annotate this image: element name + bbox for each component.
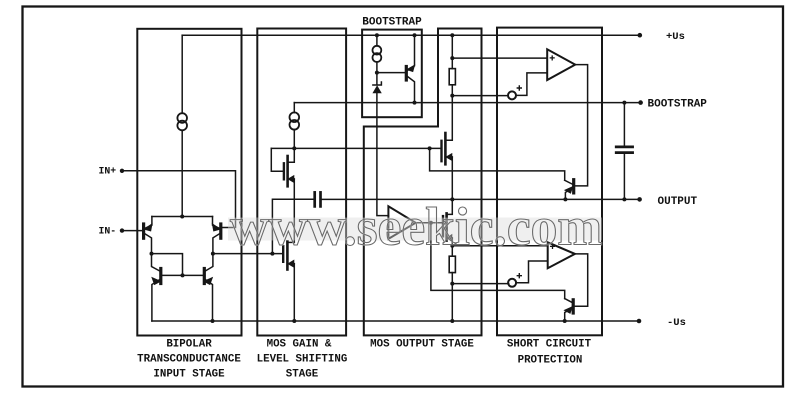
mosfet M1 (diode connected) <box>271 148 294 186</box>
node mirror base junction <box>181 273 185 277</box>
node M2 gate junction <box>270 252 274 256</box>
svg-text:INPUT STAGE: INPUT STAGE <box>153 368 225 380</box>
svg-text:SHORT CIRCUIT: SHORT CIRCUIT <box>507 339 592 351</box>
plus mark at U3 offset <box>517 274 521 278</box>
svg-text:BIPOLAR: BIPOLAR <box>166 339 212 351</box>
watermark www.seekic.com <box>228 218 602 241</box>
capacitor C1 <box>313 192 316 206</box>
wire -Us rail <box>152 320 639 322</box>
svg-text:IN+: IN+ <box>99 166 117 177</box>
svg-text:IN-: IN- <box>99 226 117 237</box>
node A1 output junction <box>429 221 433 225</box>
terminal IN- <box>120 228 124 232</box>
comparator U3 <box>548 242 575 268</box>
node tail junction <box>180 215 184 219</box>
wire I2 to M1 drain node <box>293 129 295 148</box>
svg-text:-Us: -Us <box>667 317 686 329</box>
wire R2 bottom sense to offset marker <box>452 283 508 285</box>
plus mark U2 input <box>550 56 554 60</box>
svg-text:TRANSCONDUCTANCE: TRANSCONDUCTANCE <box>137 353 241 365</box>
node R2 on -Us rail <box>450 319 454 323</box>
wire U2 output to Q6 base <box>575 65 588 186</box>
wire M1 source to M2 drain <box>293 179 295 242</box>
stage box SHORT CIRCUIT PROTECTION <box>497 28 602 336</box>
wire D1 down to amp A1 input <box>377 93 389 216</box>
offset marker circle U3 <box>508 279 516 287</box>
wire compensation tap <box>272 199 313 253</box>
transistor Q3 (mirror left, NPN) <box>152 254 161 321</box>
svg-text:BOOTSTRAP: BOOTSTRAP <box>362 17 422 29</box>
wire from +Us rail down to current source I1 <box>181 35 183 113</box>
wire M2 source to -Us rail <box>293 264 295 321</box>
bootstrap sub-box <box>362 30 422 118</box>
node M2 source on rail <box>292 319 296 323</box>
terminal -Us <box>637 319 642 324</box>
op-amp A1 <box>388 206 415 239</box>
capacitor C2 <box>616 146 632 149</box>
node M3 gate tap <box>428 146 432 150</box>
node R1 sense bottom <box>450 94 454 98</box>
mosfet M4 <box>443 199 452 241</box>
terminal +Us <box>638 33 643 38</box>
resistor R2 <box>449 256 455 272</box>
node M3/M4 on OUTPUT rail <box>450 197 454 201</box>
node Q1 collector junction <box>150 252 154 256</box>
node M1 drain/gate node <box>292 146 296 150</box>
terminal IN+ <box>120 169 124 173</box>
wire mirror base line <box>162 274 203 276</box>
current source I1 <box>177 113 187 123</box>
svg-text:www.seekic.com: www.seekic.com <box>230 197 602 257</box>
offset marker circle U2 <box>508 91 516 99</box>
stage box MOS GAIN & LEVEL SHIFTING STAGE <box>257 29 346 336</box>
wire M3 source to OUTPUT rail <box>451 157 453 199</box>
node bootstrap cap top <box>622 101 626 105</box>
wire R1 top sense to U2 <box>452 57 547 59</box>
wire Q5 base <box>377 72 405 74</box>
svg-text:OUTPUT: OUTPUT <box>658 196 698 208</box>
wire from Q2 collector to M2 gate <box>213 253 282 255</box>
wire R1 to M3 drain <box>445 85 452 140</box>
wire U3 inverting input <box>516 261 548 283</box>
resistor R1 <box>449 69 455 85</box>
wire A1 output to M4 gate <box>416 222 443 224</box>
wire bootstrap +Us feed <box>376 35 378 46</box>
wire emitter rail of input pair <box>152 216 213 218</box>
mosfet M2 <box>283 242 294 270</box>
transistor Q7 <box>565 299 574 321</box>
wire U3 output to Q7 base <box>575 254 588 306</box>
terminal OUTPUT <box>637 197 642 202</box>
node Q6 emitter on OUTPUT rail <box>563 197 567 201</box>
node Q5 emitter on bootstrap rail <box>413 101 417 105</box>
comparator U2 <box>547 49 575 80</box>
current source I2 <box>290 112 300 122</box>
transistor Q5 <box>406 35 414 102</box>
wire bootstrap rail to C2 <box>623 103 625 147</box>
node R1 top on +Us rail <box>450 33 454 37</box>
plus mark at U2 offset <box>517 86 521 90</box>
node bootstrap rail tap left <box>375 33 379 37</box>
svg-text:+Us: +Us <box>666 31 685 43</box>
node Q4 emitter on rail <box>211 319 215 323</box>
wire R2 to -Us rail <box>451 273 453 321</box>
svg-text:MOS OUTPUT STAGE: MOS OUTPUT STAGE <box>370 339 474 351</box>
stage box MOS OUTPUT STAGE (L-shaped) <box>364 29 482 336</box>
wire bootstrap rail <box>294 102 640 104</box>
transistor Q4 (mirror right, NPN) <box>204 254 213 321</box>
diode D1 (zener) <box>373 82 382 93</box>
terminal BOOTSTRAP <box>638 100 643 105</box>
transistor Q6 <box>565 180 574 201</box>
current source I3 <box>373 46 382 55</box>
node Q5 collector on +Us rail <box>413 33 417 37</box>
wire I3 to diode <box>376 62 378 85</box>
wire +Us to R1 <box>451 35 453 68</box>
wire bootstrap rail down to current source I2 <box>293 103 295 113</box>
node R2 bottom <box>450 282 454 286</box>
plus mark U3 input <box>551 245 555 249</box>
node Q5 base tap <box>375 71 379 75</box>
transistor Q2 (input pair right, PNP) <box>213 217 221 254</box>
wire OUTPUT rail <box>322 198 640 200</box>
node R1 sense top <box>450 56 454 60</box>
wire M4 source to R2 <box>451 238 453 256</box>
node R2 top <box>450 244 454 248</box>
wire M4 gate pulldown to Q7 <box>431 223 565 299</box>
mosfet M3 <box>442 133 453 164</box>
svg-text:BOOTSTRAP: BOOTSTRAP <box>648 99 708 111</box>
svg-text:MOS GAIN &: MOS GAIN & <box>267 339 332 351</box>
svg-text:PROTECTION: PROTECTION <box>518 354 583 366</box>
svg-text:LEVEL SHIFTING: LEVEL SHIFTING <box>257 353 348 365</box>
wire IN- to Q1 base <box>122 230 142 232</box>
wire mirror diode tie <box>152 254 183 276</box>
transistor Q1 (input pair left, PNP) <box>144 217 152 254</box>
wire R1 bottom sense to offset marker <box>452 95 508 97</box>
wire C2 to OUTPUT rail <box>623 153 625 200</box>
node Q7 emitter on -Us rail <box>563 319 567 323</box>
wire +Us rail <box>182 34 640 36</box>
node C2 bottom on OUTPUT rail <box>622 197 626 201</box>
node Q2 collector junction <box>211 252 215 256</box>
wire I1 to emitter rail <box>181 130 183 216</box>
wire IN+ to Q2 base <box>122 171 236 228</box>
wire gain stage output to M3 gate <box>271 147 440 149</box>
wire R2 top sense to U3 <box>452 245 547 247</box>
wire M3 gate node to Q6 <box>430 148 565 180</box>
wire U2 inverting input <box>516 73 547 96</box>
stage box BIPOLAR TRANSCONDUCTANCE INPUT STAGE <box>137 29 241 336</box>
svg-text:STAGE: STAGE <box>286 368 319 380</box>
